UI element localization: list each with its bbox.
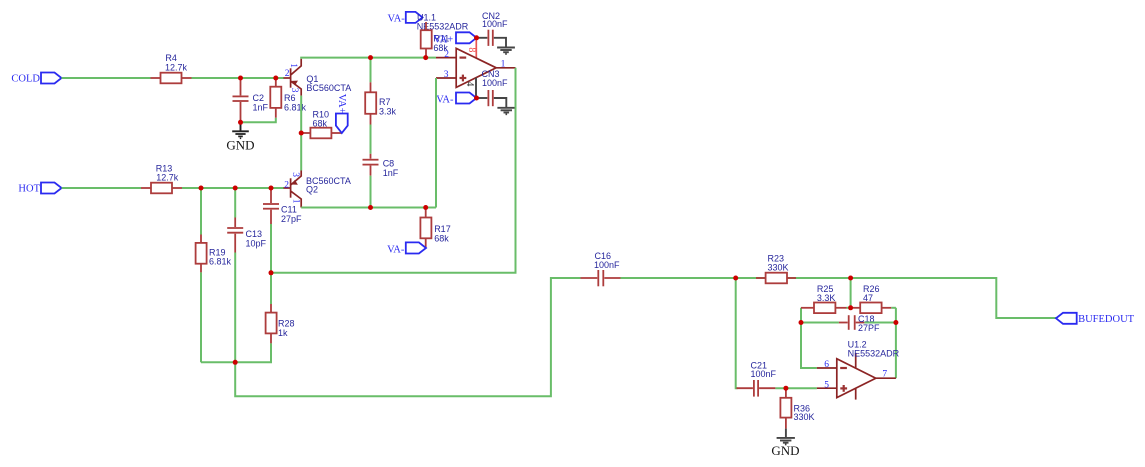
svg-text:12.7k: 12.7k	[156, 173, 179, 183]
resistor R13	[141, 163, 182, 193]
node C18 left	[799, 320, 804, 325]
svg-text:NE5532ADR: NE5532ADR	[848, 349, 900, 359]
svg-text:3: 3	[289, 88, 299, 93]
svg-text:2: 2	[444, 50, 449, 60]
svg-text:10pF: 10pF	[246, 238, 267, 248]
transistor Q1	[284, 59, 352, 96]
svg-text:100nF: 100nF	[751, 369, 777, 379]
node VA+/CN2	[474, 35, 479, 40]
svg-text:100nF: 100nF	[594, 260, 620, 270]
capacitor CN2	[477, 11, 509, 47]
wire C16 to BUFEDOUT corner	[621, 278, 1057, 318]
svg-text:100nF: 100nF	[482, 19, 508, 29]
node C21/R36	[783, 386, 788, 391]
resistor R6	[270, 78, 306, 118]
port VA+ (top)	[434, 32, 477, 45]
node C21 branch	[733, 276, 738, 281]
svg-text:1: 1	[288, 63, 298, 68]
pin 4 power wire	[464, 78, 476, 98]
wire C21 branch down	[736, 278, 738, 388]
svg-text:Q2: Q2	[306, 184, 318, 194]
wire C13 to bottom rail	[234, 253, 236, 363]
svg-text:1k: 1k	[278, 328, 288, 338]
node C2/GND	[238, 120, 243, 125]
op-amp U1.2	[817, 340, 900, 400]
svg-text:BUFEDOUT: BUFEDOUT	[1078, 314, 1135, 325]
resistor R25	[801, 284, 851, 313]
svg-text:5: 5	[824, 381, 829, 391]
wire C18 right to node	[864, 322, 896, 324]
node HOT/C11	[269, 186, 274, 191]
svg-text:2: 2	[284, 180, 289, 190]
resistor R28	[266, 304, 295, 343]
svg-text:12.7k: 12.7k	[165, 63, 188, 73]
svg-text:R17: R17	[434, 224, 451, 234]
node C18 right	[893, 320, 898, 325]
resistor R10	[301, 110, 342, 139]
capacitor C18	[801, 314, 880, 333]
svg-text:68k: 68k	[434, 234, 449, 244]
port COLD	[11, 73, 61, 85]
svg-text:1: 1	[290, 199, 300, 204]
port BUFEDOUT	[1056, 313, 1135, 325]
wire C11 to node	[270, 224, 272, 273]
node feedback/C11/R28	[269, 270, 274, 275]
node HOT/R19	[199, 186, 204, 191]
svg-text:VA-: VA-	[436, 94, 454, 105]
wire C2 bottom to R6 bottom	[241, 118, 276, 123]
op-amp U1.1	[436, 48, 516, 87]
resistor R4	[151, 53, 192, 83]
svg-text:VA-: VA-	[387, 13, 405, 24]
resistor R7	[365, 58, 396, 125]
svg-text:47: 47	[863, 293, 873, 303]
wire R23 node down to R25/R26	[850, 278, 852, 308]
svg-text:3.3k: 3.3k	[379, 107, 397, 117]
svg-text:8: 8	[466, 47, 477, 52]
resistor R11 68k	[421, 22, 450, 58]
svg-text:R28: R28	[278, 319, 295, 329]
wire R28 to bottom rail	[201, 343, 271, 362]
capacitor C11	[263, 188, 302, 224]
svg-text:VA+: VA+	[434, 35, 454, 46]
svg-text:68k: 68k	[313, 119, 328, 129]
resistor R19	[196, 188, 232, 272]
svg-text:7: 7	[882, 369, 887, 379]
capacitor C8	[363, 154, 399, 178]
wire HOT to R13	[62, 187, 141, 189]
svg-text:27PF: 27PF	[858, 323, 880, 333]
node HOT/C13	[233, 186, 238, 191]
wire left feedback column	[801, 308, 817, 368]
op-amp U1.1 designator	[417, 13, 469, 32]
wire node to R28	[270, 273, 272, 304]
wire R4 to Q1 base	[192, 77, 285, 79]
wire Q1 collector to opamp pin2	[301, 58, 436, 59]
svg-text:330K: 330K	[768, 263, 789, 273]
svg-text:HOT: HOT	[18, 183, 40, 194]
node R23 right	[848, 276, 853, 281]
wire COLD to R4	[62, 77, 151, 79]
node bottom rail	[233, 360, 238, 365]
wire C18 node to U1.2 output	[895, 323, 897, 379]
wire R26 down to C18 node	[895, 308, 897, 323]
port HOT	[18, 183, 61, 195]
capacitor CN3	[477, 69, 509, 107]
node R11 bottom	[423, 55, 428, 60]
svg-text:3: 3	[290, 172, 300, 177]
wire Q2 collector rail	[301, 207, 436, 209]
svg-text:GND: GND	[771, 443, 799, 458]
svg-text:C2: C2	[253, 93, 265, 103]
node VA-/CN3	[474, 96, 479, 101]
svg-text:R7: R7	[379, 97, 391, 107]
transistor Q2	[284, 171, 351, 208]
port VA- (at R17)	[387, 242, 426, 255]
wire C21 to opamp pin5	[775, 387, 817, 389]
svg-text:R6: R6	[284, 93, 296, 103]
svg-text:4: 4	[464, 81, 475, 86]
svg-text:BC560CTA: BC560CTA	[306, 83, 351, 93]
svg-text:VA+: VA+	[336, 94, 347, 114]
svg-text:COLD: COLD	[11, 73, 40, 84]
wire R13 to Q2 base	[182, 187, 284, 189]
capacitor C16	[581, 251, 621, 286]
node R17 top	[423, 205, 428, 210]
svg-text:2: 2	[285, 69, 290, 79]
node COLD/C2	[238, 76, 243, 81]
node R25/R26	[848, 305, 853, 310]
svg-text:3: 3	[444, 70, 449, 80]
wire R19 to bottom rail	[200, 272, 202, 362]
svg-text:6.81k: 6.81k	[284, 103, 307, 113]
svg-text:GND: GND	[226, 138, 254, 153]
svg-text:1: 1	[501, 59, 506, 69]
svg-text:1nF: 1nF	[383, 168, 399, 178]
node R10 left	[299, 131, 304, 136]
svg-text:C8: C8	[383, 159, 395, 169]
wire R7 to C8	[370, 125, 372, 154]
node COLD/R6	[273, 76, 278, 81]
svg-text:1nF: 1nF	[253, 103, 269, 113]
node R7 top	[368, 55, 373, 60]
resistor R17	[420, 208, 450, 249]
svg-text:100nF: 100nF	[482, 78, 508, 88]
wire Q1-Q2 emitter line	[300, 96, 302, 171]
svg-text:C11: C11	[281, 205, 297, 215]
capacitor C21	[737, 361, 777, 397]
port VA- (top left)	[387, 12, 422, 24]
wire rail to opamp pin3	[435, 78, 437, 208]
node C8 bottom	[368, 205, 373, 210]
svg-text:27pF: 27pF	[281, 214, 302, 224]
port VA+ (down, at R10)	[336, 94, 348, 133]
svg-text:6: 6	[824, 360, 829, 370]
resistor R36	[780, 388, 814, 428]
ground GND (R36)	[771, 429, 799, 458]
pin 8 power wire	[466, 38, 477, 58]
capacitor C2	[233, 78, 269, 122]
capacitor C13	[227, 188, 266, 253]
svg-text:VA-: VA-	[387, 244, 405, 255]
wire feedback from U1.1 output	[271, 68, 516, 273]
svg-text:6.81k: 6.81k	[209, 256, 232, 266]
port VA- (mid, CN3)	[436, 93, 476, 106]
svg-text:R4: R4	[165, 53, 177, 63]
resistor R23	[736, 254, 796, 284]
ground (CN2)	[497, 48, 515, 54]
wire bottom rail to C16	[235, 278, 580, 396]
svg-text:3.3K: 3.3K	[817, 293, 836, 303]
ground (CN3)	[497, 108, 515, 114]
resistor R26	[851, 284, 896, 313]
svg-text:330K: 330K	[794, 412, 815, 422]
ground GND (C2)	[226, 122, 254, 152]
wire C8 to lower rail	[370, 176, 372, 208]
